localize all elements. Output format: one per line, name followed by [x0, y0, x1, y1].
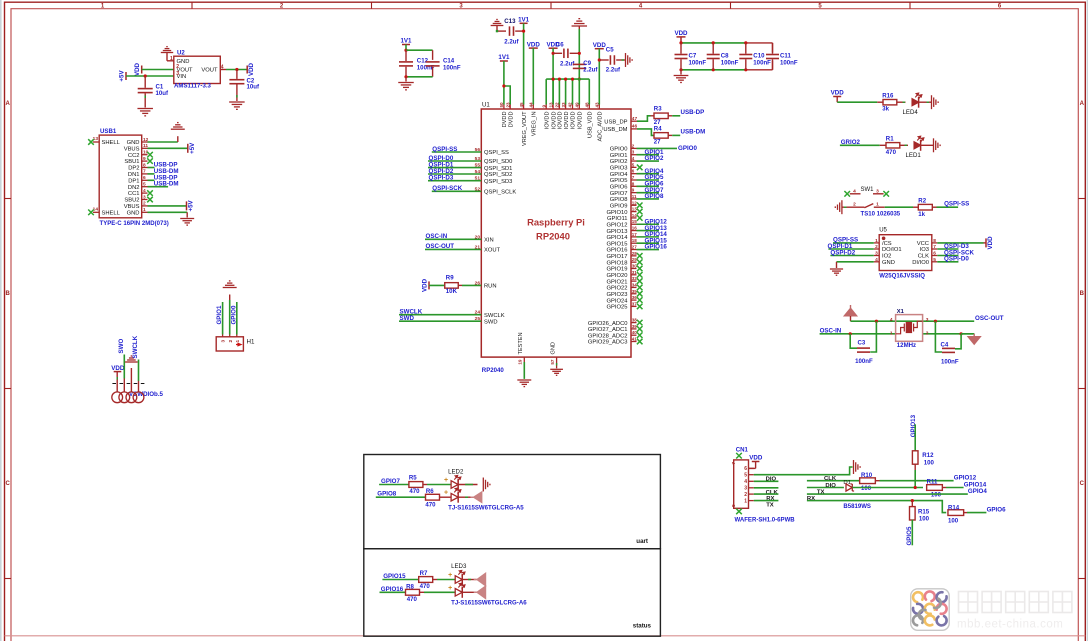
- svg-text:QSPI_SD3: QSPI_SD3: [484, 179, 512, 185]
- wire USB_DP to R3: [637, 116, 651, 121]
- wire SWD: [399, 320, 481, 322]
- wire H1 pin3: [222, 302, 224, 335]
- wire VDD to R16: [837, 101, 877, 103]
- svg-text:GPIO16: GPIO16: [645, 244, 668, 251]
- wire crystal top rail: [851, 320, 975, 322]
- USB1 pin 3 SBU2: [142, 199, 148, 201]
- svg-text:100nF: 100nF: [780, 59, 798, 66]
- svg-text:44: 44: [529, 102, 534, 108]
- svg-text:GPIO23: GPIO23: [607, 292, 628, 298]
- svg-text:7: 7: [731, 462, 736, 465]
- svg-text:100: 100: [861, 485, 872, 492]
- wire VDD to VREG_IN: [532, 48, 534, 104]
- no-connect CC1: [147, 190, 153, 196]
- svg-text:VREG_VOUT: VREG_VOUT: [522, 111, 528, 146]
- USB1 pin 6 DP1: [142, 179, 148, 181]
- svg-text:GPIO3: GPIO3: [610, 166, 628, 172]
- wire U5 GND to ground: [837, 261, 874, 263]
- svg-text:16: 16: [632, 226, 638, 231]
- wire OSC-OUT to XOUT: [425, 248, 481, 250]
- ground triangle right of LED3b: [474, 586, 486, 599]
- svg-text:RP2040: RP2040: [536, 231, 570, 242]
- svg-text:USB_DP: USB_DP: [604, 119, 627, 125]
- wire GPIO4: [637, 173, 660, 175]
- svg-text:GPIO0: GPIO0: [610, 147, 628, 153]
- svg-text:470: 470: [420, 583, 431, 590]
- wire SWCLK to hole: [138, 360, 140, 382]
- svg-text:3: 3: [744, 486, 747, 492]
- svg-text:3: 3: [221, 340, 227, 343]
- svg-text:DN1: DN1: [128, 172, 140, 178]
- crystal X1 internals: [896, 321, 923, 334]
- watermark logo box: [911, 589, 950, 631]
- svg-text:3: 3: [876, 188, 879, 194]
- U1 top pin 42 IOVDD: [572, 105, 574, 110]
- svg-text:LED3: LED3: [451, 563, 467, 570]
- junction C6 right: [578, 52, 581, 55]
- U1 top pin 13 IOVDD: [552, 105, 554, 110]
- svg-text:33: 33: [561, 102, 566, 108]
- wire LED3b to ground triangle: [462, 591, 476, 593]
- svg-text:GND: GND: [127, 140, 140, 146]
- svg-text:OSC-IN: OSC-IN: [820, 328, 842, 335]
- junction DVDD wire: [502, 84, 505, 87]
- wire CN1 pin2 RX: [754, 493, 779, 495]
- wire QSPI-SS: [432, 151, 482, 153]
- svg-text:17: 17: [632, 232, 638, 237]
- wire LED1 to ground: [921, 144, 934, 146]
- wire D1 to R11: [852, 487, 923, 489]
- no-connect GPIO17: [637, 253, 643, 259]
- svg-text:1V1: 1V1: [498, 54, 510, 61]
- junction crystal bottom right: [960, 332, 963, 335]
- svg-text:TJ-S1615SW6TGLCRG-A5: TJ-S1615SW6TGLCRG-A5: [448, 505, 524, 512]
- ground rotated at CN1 pin5: [854, 460, 861, 474]
- svg-text:37: 37: [632, 301, 638, 306]
- svg-text:12MHz: 12MHz: [897, 342, 916, 349]
- power flag +5V at pin2: [186, 201, 188, 210]
- svg-text:QSPI_SD1: QSPI_SD1: [484, 166, 512, 172]
- wire GND pin1 to ground: [148, 211, 188, 213]
- wire 1V1 to VREG_VOUT: [523, 23, 525, 104]
- wire GPIO13: [637, 230, 660, 232]
- U1 top pin 23 DVDD: [509, 105, 511, 110]
- USB1 pin 2 VBUS: [142, 205, 148, 207]
- power flag +5V: [125, 72, 127, 80]
- svg-text:VDD: VDD: [527, 41, 541, 48]
- svg-text:USB-DM: USB-DM: [154, 181, 179, 188]
- svg-text:GPIO13: GPIO13: [607, 229, 628, 235]
- no-connect GPIO21: [637, 278, 643, 284]
- svg-text:2: 2: [853, 202, 856, 208]
- capacitor C4: [935, 321, 942, 352]
- svg-text:R16: R16: [882, 93, 894, 100]
- wire USB_DM to R4: [637, 129, 654, 136]
- svg-text:VDD: VDD: [248, 62, 255, 76]
- svg-text:GPIO6: GPIO6: [610, 185, 628, 191]
- power flag VDD right: [246, 66, 248, 74]
- wire C12 to C14 top: [406, 49, 433, 51]
- svg-text:GPIO18: GPIO18: [607, 260, 628, 266]
- no-connect GPIO24: [637, 297, 643, 303]
- svg-text:GPIO7: GPIO7: [610, 191, 628, 197]
- wire QSPI-D2: [428, 173, 481, 175]
- svg-text:QSPI-D0: QSPI-D0: [944, 256, 969, 263]
- svg-text:TESTEN: TESTEN: [518, 332, 524, 354]
- svg-text:CC2: CC2: [128, 153, 140, 159]
- svg-text:1: 1: [744, 498, 747, 504]
- U1 top pin 9 IOVDD: [545, 105, 547, 110]
- no-connect GPIO29_ADC3: [637, 339, 643, 345]
- wire QSPI-SS to U5: [833, 242, 874, 244]
- svg-text:DVDD: DVDD: [502, 111, 508, 127]
- svg-text:VDD: VDD: [111, 365, 125, 372]
- capacitor C6: [553, 52, 562, 54]
- svg-text:8: 8: [143, 162, 146, 168]
- svg-text:R4: R4: [654, 125, 662, 132]
- power flag VDD at RUN: [428, 281, 430, 289]
- svg-text:39: 39: [632, 324, 638, 329]
- wire GPIO16: [637, 249, 660, 251]
- svg-text:QSPI-SS: QSPI-SS: [432, 146, 457, 153]
- svg-text:RX: RX: [807, 496, 815, 502]
- svg-text:DIO: DIO: [825, 483, 836, 489]
- wire U5 IO3: [937, 248, 958, 250]
- svg-text:A: A: [1080, 101, 1085, 107]
- svg-text:4: 4: [853, 188, 856, 194]
- wire LED2a to ground: [458, 484, 477, 486]
- capacitor C10: [745, 43, 747, 54]
- wire QSPI-D1: [428, 167, 481, 169]
- svg-text:H1: H1: [247, 338, 255, 345]
- svg-text:GND: GND: [550, 342, 556, 354]
- wire R14 to GPIO6: [967, 512, 986, 514]
- svg-text:R2: R2: [918, 198, 926, 205]
- wire U5 DI/IO0: [937, 261, 958, 263]
- wire U2 pin1 to ground: [166, 53, 168, 61]
- svg-text:RUN: RUN: [484, 284, 497, 290]
- power flag VDD at U2 VOUT: [141, 66, 143, 74]
- svg-text:QSPI-D2: QSPI-D2: [830, 249, 855, 256]
- svg-text:VDD: VDD: [421, 278, 428, 292]
- resistor R10: [860, 478, 876, 484]
- svg-text:10uf: 10uf: [156, 90, 170, 97]
- svg-text:C6: C6: [556, 41, 564, 48]
- capacitor C3: [850, 334, 857, 348]
- svg-text:36: 36: [632, 295, 638, 300]
- IC U1 RP2040 body: [481, 109, 631, 357]
- wire CN1 pin1 TX: [754, 500, 779, 502]
- svg-text:C: C: [6, 481, 11, 487]
- svg-text:GPIO25: GPIO25: [607, 305, 628, 311]
- svg-text:B5819WS: B5819WS: [843, 504, 871, 510]
- USB1 pin 8 DP2: [142, 167, 148, 169]
- power flag VDD at LED4: [833, 96, 841, 98]
- capacitor C13: [497, 30, 506, 32]
- svg-text:GPIO4: GPIO4: [968, 488, 987, 495]
- resistor R15: [911, 501, 913, 507]
- svg-text:GPIO8: GPIO8: [377, 490, 396, 497]
- wire R2 to QSPI-SS: [937, 206, 959, 208]
- svg-text:GPIO11: GPIO11: [607, 216, 628, 222]
- junction at C12 bottom: [404, 75, 407, 78]
- USB1 pin 9 SBU1: [142, 160, 148, 162]
- svg-text:10uf: 10uf: [247, 84, 261, 91]
- svg-text:QSPI_SS: QSPI_SS: [484, 150, 509, 156]
- svg-text:LED2: LED2: [448, 468, 464, 475]
- SW1 pin 4 no-connect: [844, 191, 850, 197]
- USB1 pin 1 GND: [142, 211, 148, 213]
- svg-text:GPIO8: GPIO8: [610, 197, 628, 203]
- svg-text:GPIO5: GPIO5: [610, 178, 628, 184]
- svg-text:GND: GND: [882, 260, 895, 266]
- svg-text:uart: uart: [636, 538, 648, 545]
- capacitor C2: [236, 70, 238, 79]
- wire GPIO0 long: [637, 147, 678, 149]
- wire R8 to LED3b: [424, 591, 455, 593]
- svg-text:GPIO27_ADC1: GPIO27_ADC1: [588, 327, 628, 333]
- svg-text:VOUT: VOUT: [201, 68, 218, 74]
- wire QSPI-D0: [428, 160, 481, 162]
- svg-text:GPIO9: GPIO9: [610, 203, 628, 209]
- power flag VDD at U5: [985, 238, 987, 247]
- wire R7 to LED3: [437, 579, 455, 581]
- U1 top pin 33 IOVDD: [565, 105, 567, 110]
- wire OSC-IN to XIN: [425, 238, 481, 240]
- svg-text:+: +: [444, 477, 448, 484]
- svg-text:+5V: +5V: [189, 142, 196, 154]
- SW1 pin 2 lead: [842, 206, 865, 208]
- ground triangle right of crystal: [961, 333, 974, 335]
- ground right of LED4: [932, 95, 939, 109]
- svg-text:57: 57: [550, 359, 555, 365]
- svg-text:OSC-OUT: OSC-OUT: [426, 243, 455, 250]
- wire GPIO5: [637, 179, 660, 181]
- power flag VDD above VREG_IN: [529, 47, 538, 49]
- svg-text:IO3: IO3: [920, 247, 929, 253]
- capacitor C1: [144, 76, 146, 88]
- svg-text:+: +: [448, 585, 452, 592]
- LED LED2 bottom: [451, 493, 458, 501]
- svg-text:4: 4: [890, 317, 893, 323]
- svg-text:23: 23: [505, 102, 510, 108]
- svg-text:1: 1: [170, 56, 173, 62]
- bus wire CLK: [807, 480, 860, 482]
- svg-text:100nF: 100nF: [721, 59, 739, 66]
- svg-text:2.2uf: 2.2uf: [606, 66, 621, 73]
- wire CN1 pin3 CLK: [754, 487, 779, 489]
- svg-text:3: 3: [176, 71, 179, 77]
- svg-text:U1: U1: [482, 101, 490, 108]
- svg-text:27: 27: [654, 139, 661, 146]
- svg-text:GPIO2: GPIO2: [645, 155, 664, 162]
- svg-text:B: B: [1080, 291, 1085, 297]
- svg-text:VBUS: VBUS: [124, 146, 140, 152]
- wire GPIO12: [637, 223, 660, 225]
- svg-text:2.2uf: 2.2uf: [583, 66, 598, 73]
- svg-text:3: 3: [926, 317, 929, 323]
- resistor R4: [654, 133, 668, 139]
- svg-text:3: 3: [143, 194, 146, 200]
- junction R12-DIO: [914, 486, 917, 489]
- svg-text:+: +: [448, 572, 452, 579]
- junction C9 bottom rail: [578, 78, 581, 81]
- svg-text:15: 15: [632, 219, 638, 224]
- svg-text:R9: R9: [446, 274, 454, 281]
- LED LED2 top: [451, 481, 458, 489]
- svg-text:TS10 1026035: TS10 1026035: [861, 211, 901, 217]
- wire VBUS pin2 to +5V: [148, 205, 187, 207]
- svg-text:1: 1: [876, 202, 879, 208]
- wire DN1: [148, 173, 155, 175]
- svg-text:9: 9: [541, 105, 546, 108]
- svg-text:48: 48: [585, 102, 590, 108]
- svg-text:31: 31: [632, 270, 638, 275]
- capacitor C11: [772, 43, 774, 54]
- wire GPIO13 to R12: [914, 424, 916, 451]
- svg-text:C3: C3: [858, 340, 866, 347]
- junction crystal bottom left: [849, 332, 852, 335]
- ground right of C5: [626, 53, 633, 67]
- resistor R16: [877, 101, 883, 103]
- svg-text:QSPI-SS: QSPI-SS: [944, 201, 969, 208]
- wire CN1 pin4 DIO: [754, 480, 779, 482]
- USB1 pin 10 CC2: [142, 154, 148, 156]
- svg-text:GPIO4: GPIO4: [610, 172, 628, 178]
- wire CN1 pin5 to ground: [754, 467, 853, 475]
- USB1 pin 7 DN1: [142, 173, 148, 175]
- no-connect CC2: [147, 152, 153, 158]
- wire R15 to GPIO5: [911, 520, 913, 546]
- svg-text:R8: R8: [406, 583, 414, 590]
- svg-text:4: 4: [744, 479, 747, 485]
- wire GPIO8 to R6: [376, 496, 426, 498]
- no-connect GPIO11: [637, 215, 643, 221]
- svg-text:+5V: +5V: [188, 199, 195, 211]
- svg-text:QSPI-D3: QSPI-D3: [429, 175, 454, 182]
- wire QSPI-D1 to U5: [828, 248, 873, 250]
- svg-text:A: A: [6, 101, 11, 107]
- svg-text:6: 6: [143, 175, 146, 181]
- resistor R12: [912, 451, 918, 464]
- wire LED4 to ground: [919, 101, 932, 103]
- SW1 pin 3 no-connect: [873, 193, 884, 195]
- no-connect GPIO28_ADC2: [637, 332, 643, 338]
- svg-text:AMS1117-3.3: AMS1117-3.3: [174, 83, 212, 90]
- svg-text:IOVDD: IOVDD: [551, 112, 557, 130]
- bus wire RX: [807, 501, 946, 513]
- svg-text:1V1: 1V1: [518, 17, 530, 24]
- wire VBUS pin11 to +5V: [148, 147, 188, 149]
- SW1 pin 1 lead: [874, 206, 885, 208]
- wire GPIO15: [637, 242, 660, 244]
- svg-text:GPIO22: GPIO22: [607, 286, 628, 292]
- resistor R8: [406, 589, 420, 595]
- screen edge strips: [0, 0, 2, 641]
- junction at C5: [598, 58, 601, 61]
- svg-text:R11: R11: [927, 479, 938, 486]
- capacitor C8: [712, 43, 714, 54]
- svg-text:470: 470: [409, 488, 420, 495]
- svg-text:SWCLK: SWCLK: [132, 335, 139, 358]
- svg-text:470: 470: [886, 149, 897, 156]
- svg-text:GPIO26_ADC0: GPIO26_ADC0: [588, 321, 628, 327]
- svg-text:QSPI_SCLK: QSPI_SCLK: [484, 190, 516, 196]
- wire DP2: [148, 167, 155, 169]
- svg-text:GND: GND: [127, 210, 140, 216]
- svg-text:SW1: SW1: [861, 187, 875, 193]
- svg-text:QSPI_SD2: QSPI_SD2: [484, 172, 512, 178]
- svg-text:+: +: [444, 490, 448, 497]
- svg-text:GPIO20: GPIO20: [607, 273, 628, 279]
- USB1 pin 12 GND: [142, 141, 148, 143]
- svg-text:40: 40: [632, 330, 638, 335]
- wire SWCLK: [399, 314, 481, 316]
- U1 top pin 49 IOVDD: [578, 105, 580, 110]
- svg-text:27: 27: [632, 245, 638, 250]
- wire ground to IOVDD rail: [578, 29, 580, 79]
- svg-text:2: 2: [143, 201, 146, 207]
- power flag VDD at C7 bank: [677, 36, 686, 38]
- LED LED1: [914, 142, 921, 149]
- svg-text:R6: R6: [426, 488, 434, 495]
- no-connect GPIO9: [637, 202, 643, 208]
- svg-text:C13: C13: [504, 18, 516, 25]
- capacitor C5: [599, 59, 608, 61]
- wire GPIO7: [637, 192, 660, 194]
- svg-text:42: 42: [568, 102, 573, 108]
- svg-text:2.2uf: 2.2uf: [504, 39, 519, 46]
- power flag VDD at CN1: [749, 467, 756, 469]
- svg-text:IOVDD: IOVDD: [578, 112, 584, 130]
- wire R10 to GPIO12: [880, 480, 954, 482]
- svg-text:VDD: VDD: [134, 62, 141, 76]
- LED LED3 top: [455, 576, 462, 584]
- CN1 shell pin 7 no-connect: [736, 453, 742, 459]
- svg-text:TX: TX: [766, 502, 774, 508]
- ground below TESTEN: [517, 380, 531, 387]
- USB1 pin 5 DN2: [142, 186, 148, 188]
- svg-text:14: 14: [632, 213, 638, 218]
- ground right of LED1: [934, 138, 941, 152]
- svg-text:IOVDD: IOVDD: [571, 112, 577, 130]
- svg-text:100nF: 100nF: [443, 64, 461, 71]
- U1 top pin 50 DVDD: [503, 105, 505, 110]
- svg-text:GPIO14: GPIO14: [607, 235, 629, 241]
- wire DN2: [148, 186, 169, 188]
- svg-text:GPIO24: GPIO24: [607, 298, 629, 304]
- svg-text:2: 2: [176, 64, 179, 70]
- svg-text:C: C: [1080, 481, 1085, 487]
- svg-text:DI/IO0: DI/IO0: [912, 260, 929, 266]
- svg-text:GPIO17: GPIO17: [607, 254, 628, 260]
- resistor R1: [880, 144, 887, 146]
- wire LED3a to ground triangle: [462, 579, 476, 581]
- svg-text:2: 2: [228, 340, 234, 343]
- no-connect GPIO27_ADC1: [637, 326, 643, 332]
- ground above pin12 wire: [171, 123, 185, 130]
- svg-text:29: 29: [632, 257, 638, 262]
- wire GPIO6: [637, 185, 660, 187]
- svg-text:TX: TX: [817, 489, 825, 495]
- svg-text:mbb.eet-china.com: mbb.eet-china.com: [957, 619, 1063, 631]
- svg-text:GPIO12: GPIO12: [607, 222, 628, 228]
- svg-text:DP2: DP2: [128, 166, 139, 172]
- wire DP1: [148, 179, 155, 181]
- junction R15-RX: [911, 499, 914, 502]
- capacitor C9: [573, 63, 586, 65]
- junction dots cap bank: [679, 41, 682, 44]
